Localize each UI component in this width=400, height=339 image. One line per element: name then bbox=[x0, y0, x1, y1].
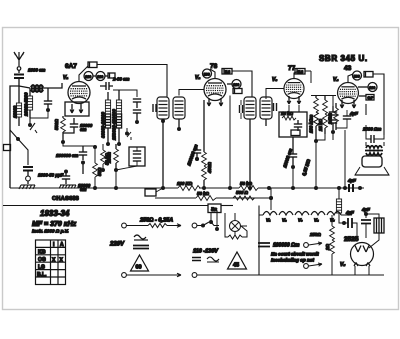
capacitor C8 padder bbox=[133, 99, 141, 102]
capacitor C3 1000-50 bbox=[23, 167, 33, 171]
svg-text:100: 100 bbox=[354, 75, 360, 79]
wire T1b down bbox=[178, 119, 180, 128]
svg-text:110 -130V: 110 -130V bbox=[193, 249, 219, 255]
node dot T1 bottom bbox=[161, 119, 165, 123]
heater chain bbox=[258, 206, 260, 276]
wire network to tube bbox=[289, 105, 299, 112]
resistor R11 240ohm cathode V4 bbox=[334, 108, 339, 122]
wire from rail B down to heater start bbox=[270, 198, 272, 210]
box E3 V4 bbox=[364, 72, 373, 78]
resistor R9 100kohm bbox=[314, 98, 319, 126]
svg-text:LG: LG bbox=[38, 264, 45, 270]
resistor R19 hatched top bbox=[336, 199, 341, 213]
capacitor C23 left of T2 bbox=[240, 105, 243, 113]
grid cap lead V4 bbox=[348, 74, 353, 83]
svg-text:Instr. 1000 Ω p.V.: Instr. 1000 Ω p.V. bbox=[32, 229, 69, 234]
cathode box V1 with arrows bbox=[65, 102, 89, 116]
resistor R7 400ohm bbox=[202, 152, 207, 166]
capacitor C1 antenna series bbox=[14, 75, 24, 79]
cathode arrows V2 bbox=[207, 98, 223, 106]
svg-text:240Ω: 240Ω bbox=[328, 113, 333, 125]
svg-text:4μF: 4μF bbox=[349, 111, 358, 116]
terminal small circle bbox=[27, 171, 29, 177]
rail B y198 bbox=[155, 197, 271, 199]
switch contact top bbox=[304, 243, 309, 248]
wire V3 top to right frame bbox=[305, 71, 311, 83]
node A dot bbox=[16, 137, 20, 141]
rail A y188 bbox=[10, 187, 178, 189]
wire V3 grid left to T2 bbox=[266, 89, 284, 100]
wire V4 down bbox=[344, 130, 346, 188]
box E4 right bbox=[108, 73, 115, 78]
svg-text:100: 100 bbox=[85, 75, 91, 79]
box CP V4 bbox=[366, 95, 374, 101]
svg-text:KG: KG bbox=[38, 250, 46, 256]
capacitor C17 cathode V4 bbox=[343, 116, 351, 119]
svg-text:220V: 220V bbox=[109, 242, 125, 248]
antenna bbox=[14, 52, 24, 70]
svg-text:10000: 10000 bbox=[13, 105, 18, 118]
resistor R20 50ohm bbox=[93, 163, 98, 177]
wire with resistor to arrow bbox=[127, 225, 149, 227]
box E3 top of V1 bbox=[88, 62, 97, 68]
bottom line bbox=[259, 274, 384, 276]
wire V2 grid left to T1 bbox=[179, 90, 204, 96]
wire lamp up bbox=[235, 213, 247, 226]
speaker LS bbox=[362, 156, 382, 167]
svg-text:250Ω: 250Ω bbox=[107, 152, 112, 164]
resistor R3 500ohm cathode bbox=[61, 118, 66, 132]
wire R6 node to rail bbox=[115, 170, 117, 188]
box E3 V3 bbox=[295, 69, 305, 75]
right frame wires of output bbox=[366, 74, 384, 135]
resistor R4 30000-10000 tall bbox=[105, 100, 110, 128]
svg-text:V₃: V₃ bbox=[298, 218, 303, 223]
tube V6 2525 rectifier bbox=[351, 243, 374, 266]
svg-text:50 kΩ: 50 kΩ bbox=[240, 181, 253, 186]
node dot cathode bbox=[61, 140, 65, 144]
capacitor C15 10000cm bbox=[289, 154, 297, 157]
capacitor C14 inside bbox=[294, 124, 302, 127]
svg-text:1000-50 μμF: 1000-50 μμF bbox=[38, 173, 64, 178]
elco box 8uF bbox=[374, 218, 384, 233]
svg-text:Inschakeling op net: Inschakeling op net bbox=[271, 258, 314, 263]
wire C1 down to node bbox=[18, 78, 20, 86]
resistor R13 50kohm inline bbox=[239, 186, 258, 191]
svg-text:250Ω - 0,25A: 250Ω - 0,25A bbox=[139, 218, 173, 224]
svg-text:OG: OG bbox=[38, 257, 46, 263]
wire P2 arrow bbox=[127, 273, 182, 277]
chassis ground hatched bbox=[59, 185, 76, 189]
wire E3 right then down bbox=[232, 71, 252, 97]
svg-text:V₃: V₃ bbox=[272, 77, 277, 83]
wire antenna to C1 bbox=[18, 70, 20, 73]
output transformer T3 bbox=[365, 146, 383, 156]
lamp DL with X bbox=[230, 221, 241, 232]
box E3 lower V2 bbox=[233, 89, 242, 94]
wire node to coil bbox=[19, 86, 30, 88]
switch contact bottom bbox=[304, 264, 309, 269]
junction dot rail B bbox=[269, 196, 273, 200]
svg-text:100 KΩ: 100 KΩ bbox=[177, 181, 193, 186]
node dot under C4 bbox=[81, 161, 85, 165]
svg-text:60: 60 bbox=[136, 265, 142, 271]
svg-text:100: 100 bbox=[97, 75, 103, 79]
switch S2 bbox=[127, 128, 131, 140]
svg-text:SBR 345 U.: SBR 345 U. bbox=[319, 54, 368, 63]
svg-text:V₂: V₂ bbox=[282, 218, 287, 223]
wire V2 cathode down bbox=[203, 100, 205, 148]
wire C2 to R2 bottom bbox=[30, 110, 48, 118]
capacitor C7 10000cm cathode bbox=[70, 124, 78, 127]
svg-text:43: 43 bbox=[344, 65, 352, 72]
bubble 100 left of V2 bbox=[203, 69, 212, 78]
resistor R10 25kohm bbox=[323, 100, 328, 114]
capacitor C18 output series bbox=[371, 135, 374, 143]
wire P4 to right bbox=[197, 274, 259, 276]
svg-text:V₁: V₁ bbox=[266, 218, 271, 223]
equals sign bbox=[192, 258, 201, 261]
svg-text:δR: δR bbox=[211, 207, 218, 212]
svg-text:V₁: V₁ bbox=[63, 75, 68, 81]
resistor R1 10000 bbox=[16, 103, 21, 117]
wire osc frame bbox=[113, 90, 137, 97]
IF transformer T1 can a bbox=[157, 97, 169, 119]
wire elco to C22 bbox=[366, 214, 379, 248]
resistor R8 inside bbox=[282, 116, 296, 120]
svg-text:2Ω: 2Ω bbox=[325, 244, 330, 251]
svg-text:50 kΩ: 50 kΩ bbox=[197, 191, 210, 196]
wire x230 drop bbox=[229, 96, 231, 189]
svg-text:V₂: V₂ bbox=[195, 75, 200, 81]
fuse symbol right bbox=[207, 257, 219, 262]
wire T2 down bbox=[250, 119, 266, 188]
svg-text:20000-5000: 20000-5000 bbox=[24, 92, 29, 117]
svg-text:100: 100 bbox=[204, 73, 210, 77]
resistor R14 50kohm rail B bbox=[196, 196, 216, 201]
resistor R6 250ohm bbox=[114, 149, 119, 163]
svg-text:500Ω: 500Ω bbox=[54, 119, 59, 130]
terminal P1 bbox=[122, 223, 127, 228]
rail C y205 long frame bbox=[3, 205, 208, 207]
IF transformer T1 can b bbox=[173, 97, 185, 119]
svg-text:50Ω: 50Ω bbox=[97, 167, 102, 176]
resistor R17 below lamp bbox=[228, 235, 242, 239]
wire node A down bbox=[10, 130, 28, 165]
cathode arrows V3 bbox=[287, 96, 300, 104]
svg-text:cm: cm bbox=[80, 127, 86, 132]
svg-text:B.L.: B.L. bbox=[37, 272, 47, 278]
svg-text:250000-100000: 250000-100000 bbox=[112, 109, 117, 141]
resistor R5 250000-100000 tall bbox=[116, 100, 121, 128]
svg-text:V₄: V₄ bbox=[333, 77, 338, 83]
svg-text:4μF: 4μF bbox=[347, 178, 356, 183]
triangle 60 bbox=[131, 255, 149, 271]
bubble 100 right of V2 bbox=[232, 80, 241, 89]
capacitor C6 osc bbox=[106, 82, 109, 90]
resistor R21 50kohm mid bbox=[101, 150, 106, 164]
svg-text:4μF: 4μF bbox=[345, 210, 354, 215]
svg-text:E.3: E.3 bbox=[225, 70, 230, 74]
IF transformer T2 can b bbox=[260, 97, 272, 119]
svg-text:2525: 2525 bbox=[344, 236, 359, 243]
switch box left rail B bbox=[145, 189, 156, 196]
heater coils V1-V5 bbox=[263, 212, 341, 216]
wire coil to grid column bbox=[43, 83, 62, 88]
resistor R18 vertical right bbox=[330, 226, 335, 254]
capacitor C2 bbox=[44, 101, 52, 104]
svg-text:1000 cm: 1000 cm bbox=[28, 68, 45, 73]
wire left frame bbox=[10, 86, 19, 188]
terminal P2 bbox=[122, 273, 127, 278]
svg-text:En court circuit wordt: En court circuit wordt bbox=[271, 252, 319, 257]
capacitor C20 100000 bbox=[258, 243, 270, 247]
svg-text:6A7: 6A7 bbox=[65, 63, 77, 70]
rail C continue bbox=[221, 205, 233, 207]
capacitor C16 bbox=[329, 112, 337, 115]
svg-text:E.3: E.3 bbox=[298, 70, 303, 74]
cathode arrows V4 bbox=[340, 100, 356, 108]
box 8ohm bbox=[208, 204, 221, 213]
wire bubbles bbox=[93, 75, 108, 77]
svg-text:A: A bbox=[60, 242, 64, 248]
wire T1a down to rail bbox=[162, 119, 164, 188]
svg-text:100000 Ωm: 100000 Ωm bbox=[273, 243, 300, 249]
wires V6 bbox=[355, 266, 369, 275]
svg-text:25 kΩ: 25 kΩ bbox=[318, 118, 323, 132]
anode bubble 100 bbox=[96, 72, 105, 81]
terminal P4 bbox=[192, 273, 197, 278]
svg-text:250Ω: 250Ω bbox=[309, 232, 321, 237]
terminal box left edge bbox=[4, 145, 11, 151]
node dot C2 bbox=[46, 108, 50, 112]
box E3 V2 bbox=[222, 69, 232, 75]
svg-text:100: 100 bbox=[233, 83, 239, 87]
small box inside bbox=[291, 130, 300, 136]
bubble 100 top V4 bbox=[353, 71, 362, 80]
grid cap lead V3 bbox=[294, 71, 299, 79]
capacitor C9 padder2 bbox=[133, 110, 141, 113]
wire cathode node to C4 bbox=[63, 142, 83, 146]
grid cap lead of V1 bbox=[79, 66, 88, 82]
switch S3 mains bbox=[197, 222, 209, 226]
fuse symbols bbox=[133, 235, 149, 249]
svg-text:2-60 cm: 2-60 cm bbox=[112, 77, 129, 82]
resistor R2 20000-5000 bbox=[27, 96, 32, 110]
svg-text:100 kΩm: 100 kΩm bbox=[309, 115, 314, 133]
resistor R16 500ohm inline bbox=[233, 196, 255, 200]
svg-text:78: 78 bbox=[210, 63, 218, 70]
wire rectifier top bus bbox=[345, 214, 352, 216]
grid network box V3 bbox=[279, 112, 307, 137]
grid cap lead V2 bbox=[210, 69, 215, 79]
junction dots rail A bbox=[161, 186, 165, 190]
screen bubble 100 bbox=[84, 72, 93, 81]
svg-text:MF = 370 κHz: MF = 370 κHz bbox=[32, 221, 77, 228]
capacitor C19 4uF on rail A right bbox=[349, 184, 353, 192]
capacitor C11 beside T1 bbox=[153, 104, 156, 112]
capacitor C13 beside T2 bbox=[274, 103, 277, 111]
wire top bus from E3 to first IF can bbox=[97, 65, 167, 98]
capacitor C10 boxed bbox=[129, 147, 145, 166]
resistor R12 100kohm inline bbox=[178, 186, 200, 191]
svg-text:400Ω: 400Ω bbox=[207, 162, 212, 174]
terminal P3 bbox=[192, 223, 197, 228]
band table bbox=[36, 240, 66, 285]
svg-text:500 Ω: 500 Ω bbox=[236, 190, 249, 195]
IF transformer T2 can a bbox=[244, 97, 256, 119]
capacitor C5 to chassis bbox=[62, 176, 70, 179]
wire R2 leads bbox=[29, 88, 31, 118]
ground earth bbox=[27, 181, 29, 184]
svg-text:C.P: C.P bbox=[368, 96, 374, 100]
svg-text:100000 cm: 100000 cm bbox=[56, 153, 78, 158]
wire R1 leads bbox=[18, 86, 20, 126]
svg-text:CHASSIS: CHASSIS bbox=[52, 196, 79, 202]
svg-text:100: 100 bbox=[369, 86, 375, 90]
switch S1 wave-band bbox=[30, 118, 37, 133]
bubble 100 mid V4 bbox=[368, 83, 377, 92]
svg-text:1933-34: 1933-34 bbox=[40, 209, 70, 218]
svg-text:4μF: 4μF bbox=[361, 207, 370, 212]
svg-text:10 kΩ: 10 kΩ bbox=[281, 111, 294, 116]
coil L1 antenna bbox=[31, 85, 43, 92]
svg-text:V₅: V₅ bbox=[340, 262, 345, 268]
svg-text:30000-10000: 30000-10000 bbox=[101, 112, 106, 138]
svg-text:2600 Ωm: 2600 Ωm bbox=[362, 127, 381, 132]
svg-text:V₄: V₄ bbox=[314, 218, 319, 223]
capacitor C12 bbox=[193, 150, 201, 153]
svg-text:45: 45 bbox=[233, 263, 239, 269]
triangle 45 bbox=[228, 252, 247, 269]
